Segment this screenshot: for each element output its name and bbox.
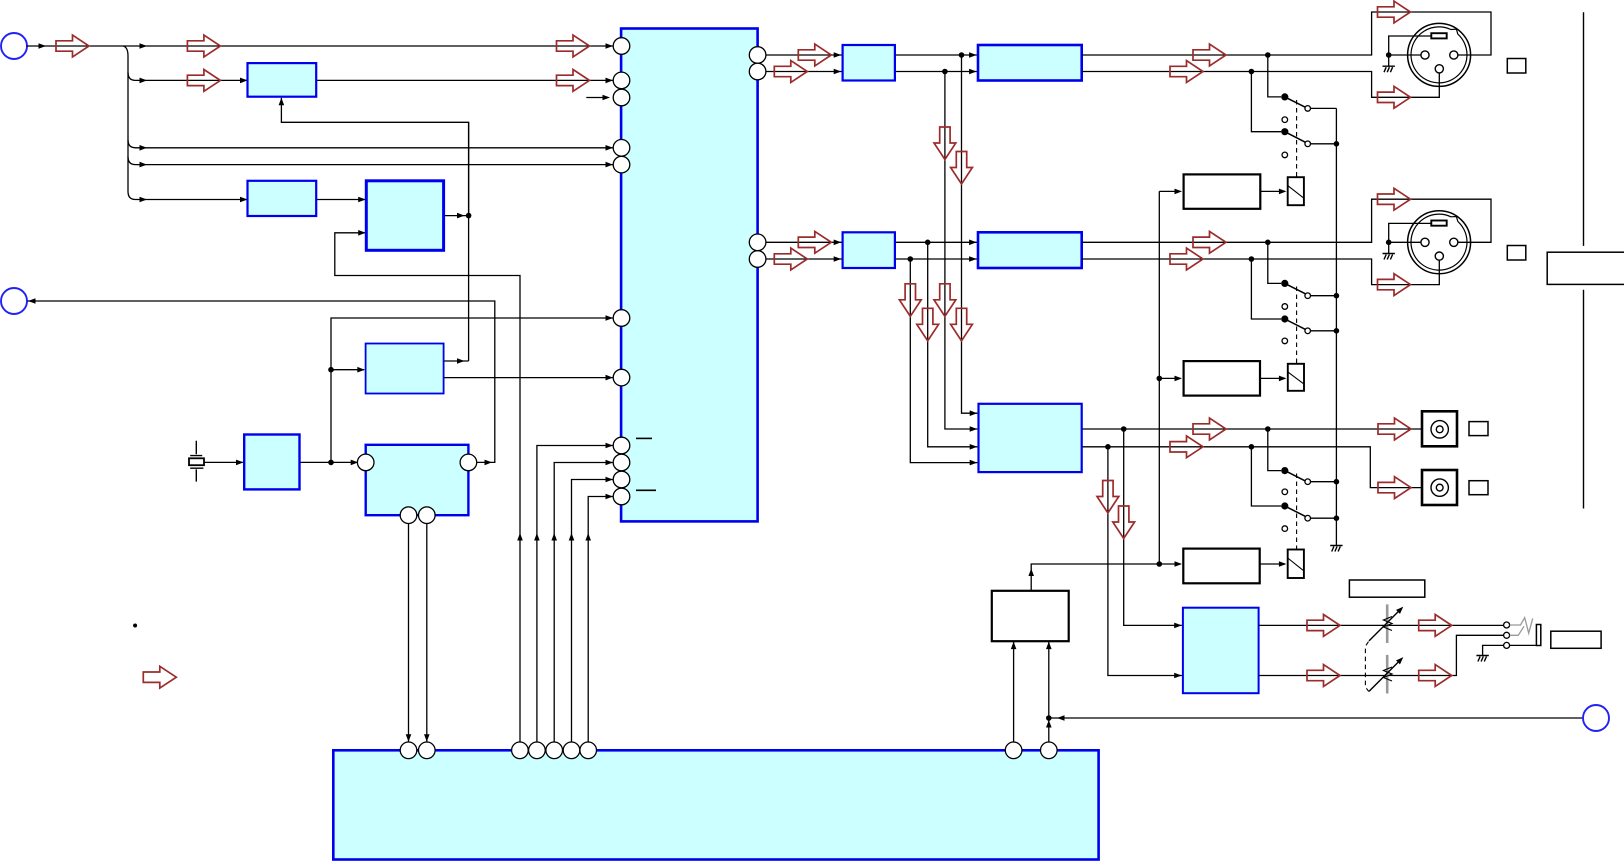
block B4: digital filter <box>366 344 444 394</box>
wire: CPU pin up to DSP pin 445 <box>537 446 613 743</box>
mute switch 1 NC contact A <box>1282 117 1288 123</box>
block: headphone amp <box>1183 608 1259 694</box>
XLR1 pin 3 <box>1450 51 1458 59</box>
XLR2 pin 2 <box>1421 238 1429 246</box>
wire: mute control into driver 3 <box>1159 563 1180 565</box>
junction: mute bus sw2b <box>1334 328 1340 334</box>
wire: mute control into driver 1 <box>1159 190 1180 192</box>
node: remote connector J3 <box>1583 705 1609 731</box>
wire: branch to DSP pin D <box>128 140 613 148</box>
wire: DSP out 1a to DAC filter 1 <box>766 54 842 56</box>
block: relay driver 3 <box>1183 549 1259 584</box>
mute switch 2 pole B arm <box>1285 319 1305 329</box>
wire: xtal-osc output to divider B6 <box>300 461 358 463</box>
label rect: muting <box>1349 580 1424 597</box>
XLR2 pin 1 <box>1435 252 1443 260</box>
junction: mute bus sw3a <box>1334 479 1340 485</box>
wire: mute control into driver 2 <box>1159 377 1180 379</box>
mute switch 3 pole B arm <box>1285 506 1305 516</box>
pin: DSP left I <box>613 454 630 471</box>
pin: CPU top 7 <box>580 742 597 759</box>
mute switch 1 pole B arm <box>1285 132 1305 143</box>
connector XLR1 body <box>1408 23 1471 86</box>
mute switch 3 pole B movable contact <box>1281 502 1288 509</box>
red flow arrows XLR1 <box>1193 44 1226 66</box>
wire: DAC out b down to HP amp input 2 <box>1108 447 1182 676</box>
mute switch 2 pole B throw contact <box>1305 328 1311 334</box>
wire: driver 1 to relay 1 <box>1260 190 1285 192</box>
relay RY3 <box>1288 550 1304 579</box>
block: system control <box>992 591 1069 641</box>
block B5: crystal oscillator <box>244 435 299 490</box>
wire: PLL clock to line amp B1 bottom <box>281 98 468 216</box>
pin: DSP left C <box>613 89 630 106</box>
mute switch 3 NC contact A <box>1282 489 1288 495</box>
label overbar: DSP pin H <box>636 437 652 439</box>
pin: CPU top 9 <box>1041 742 1058 759</box>
arrowheads middle section <box>834 52 842 58</box>
mute switch 3 pole B throw contact <box>1305 515 1311 521</box>
junction: xtal branch to filter <box>328 367 334 373</box>
wire: PLL feedback from divider net <box>335 233 520 742</box>
pin: DSP right out 1a <box>749 47 766 64</box>
mute switch 2 pole B movable contact <box>1281 315 1288 322</box>
wire: jack sleeve to ground <box>1483 645 1504 655</box>
wire: driver1 cold to XLR1 pin3 <box>1251 72 1439 98</box>
wire: filter out 2b to line driver 2 <box>895 258 977 260</box>
label square XLR1 <box>1507 59 1526 74</box>
XLR1 pin 2 <box>1421 51 1429 59</box>
wire: switch1 pole B to mute bus <box>1311 143 1337 145</box>
block: line driver 2 <box>978 232 1082 268</box>
red flow arrows, input section <box>56 35 89 57</box>
wire: switch2 pole B to mute bus <box>1311 330 1337 332</box>
junction: XLR1 cold tap <box>1249 69 1255 75</box>
pin: divider right <box>460 454 477 471</box>
connector: headphone jack ring contact <box>1504 632 1510 638</box>
block B1: input line amp <box>248 63 317 97</box>
wire: driver2 cold from block <box>1082 258 1252 260</box>
node: analog input connector J1 <box>1 33 27 59</box>
wire: filter out 1b to line driver 1 <box>895 71 977 73</box>
wire: XLR2 shell node to latch <box>1389 223 1432 242</box>
wire: XLR2 shell node ground stub <box>1388 242 1390 253</box>
junction: XLR2 cold tap <box>1249 256 1255 262</box>
junction: XLR2 hot tap <box>1265 240 1271 246</box>
legend: signal flow arrow <box>143 666 176 688</box>
wire: input fan-out branch trunk <box>124 46 248 200</box>
potentiometer: HP volume L <box>1369 604 1400 643</box>
relay RY1 <box>1288 177 1304 205</box>
wire: divider bottom pin 1 down to CPU block <box>408 519 410 741</box>
ground: mute bus <box>1330 546 1342 552</box>
block: relay driver 1 <box>1184 174 1261 208</box>
pin: divider left <box>357 454 374 471</box>
mute switch 1 pole A movable contact <box>1281 93 1288 100</box>
junction: RCA tap b <box>1249 444 1255 450</box>
wire: divider B6 output to word-sync line <box>28 301 495 462</box>
wire: XLR1 shell node to latch <box>1389 36 1432 55</box>
block: line driver 1 <box>978 45 1082 81</box>
relay RY2 <box>1288 364 1304 391</box>
wire: filter out 1a to line driver 1 <box>895 54 977 56</box>
connector: headphone jack tip contact <box>1504 622 1510 628</box>
pin: CPU top 8 <box>1005 742 1022 759</box>
headphone jack ring spring <box>1510 626 1524 635</box>
wire: CPU pin up to DSP pin 479 <box>572 480 614 743</box>
wire: RCA hot tap to mute switch 3a <box>1268 429 1281 471</box>
junction: mute bus sw3b <box>1334 515 1340 521</box>
wire: PLL output to clock node <box>444 215 469 217</box>
pin: CPU top 1 <box>400 742 417 759</box>
pin: DSP left D <box>613 140 630 157</box>
headphone jack tip spring <box>1510 618 1533 634</box>
mute switch 1 pole A arm <box>1285 97 1305 107</box>
label square RCA2 <box>1469 481 1488 495</box>
red flow arrows XLR2 <box>1193 231 1226 253</box>
pin: DSP right out 2b <box>749 251 766 268</box>
wire: driver1 cold from block <box>1082 71 1252 73</box>
wire: clock vertical net <box>468 122 470 361</box>
wire: XLR1 pin2 to shell node <box>1389 54 1421 56</box>
wire: DSP out 1b to DAC filter 1 <box>766 71 842 73</box>
wire: HP amp out L to jack tip <box>1259 624 1504 626</box>
wire: xtal clock vertical to DSP pin 318 <box>331 318 613 462</box>
mute switch 3 pole A movable contact <box>1281 467 1288 474</box>
wire: monitor tap 1a down to DAC input 1 <box>962 55 978 413</box>
pin: DSP left K <box>613 488 630 505</box>
mute switch 3 pole A throw contact <box>1305 479 1311 485</box>
mute switch 2 pole A throw contact <box>1305 293 1311 299</box>
wire: DAC out a to RCA/HP net <box>1082 428 1421 430</box>
mute switch 2 pole A movable contact <box>1281 280 1288 287</box>
junction: XLR2 shell node <box>1386 240 1392 246</box>
pin: CPU top 5 <box>546 742 563 759</box>
mute switch 1 pole A throw contact <box>1305 106 1311 112</box>
block: DAC digital filter 2 <box>843 232 895 268</box>
XLR1 pin 1 <box>1435 65 1443 73</box>
wire: CPU to system ctrl 1 <box>1013 642 1015 742</box>
label square RCA1 <box>1469 422 1488 436</box>
wire: XLR2 cold tap to mute switch 2b <box>1251 259 1281 319</box>
red flow arrows middle <box>798 44 831 66</box>
wire: driver1 hot to XLR1 loop <box>1082 12 1491 55</box>
pin: divider bottom 2 <box>419 507 436 524</box>
wire: filter B4 output 1 to clock net <box>444 360 469 362</box>
wire: branch to DSP pin E <box>128 157 613 165</box>
wire: branch to line amp B1 <box>128 73 248 81</box>
wire: CPU pin up to DSP pin 462 <box>554 463 613 743</box>
junction: mute bus sw2a <box>1334 293 1340 299</box>
ground: headphone jack <box>1476 656 1488 662</box>
connector XLR2 body <box>1408 211 1471 274</box>
connector: headphone jack sleeve contact <box>1504 642 1510 648</box>
wire: jack sleeve to body bar <box>1510 644 1537 646</box>
wire: switch1 pole A to mute bus <box>1311 107 1337 109</box>
label rect: right edge <box>1547 252 1624 284</box>
dashed link relay2 to switch 2 <box>1296 287 1298 364</box>
ground: XLR2 shell <box>1383 254 1395 260</box>
wire: CPU pin up to DSP pin 496 <box>588 497 613 743</box>
XLR2 pin 3 <box>1450 238 1458 246</box>
pin: DSP left E <box>613 156 630 173</box>
headphone jack body bar <box>1536 625 1540 646</box>
arrowheads on input section wires <box>39 43 47 49</box>
pin: DSP right out 1b <box>749 63 766 80</box>
wire: RCA cold tap to mute switch 3b <box>1251 447 1281 506</box>
legend bullet <box>133 624 137 628</box>
label rect: headphone jack <box>1551 631 1601 648</box>
mute switch 3 NC contact B <box>1282 526 1288 532</box>
wire: monitor tap 2a down to DAC input 3 <box>928 242 978 446</box>
wire: switch3 pole A to mute bus <box>1311 481 1337 483</box>
junction: RCA tap a <box>1265 426 1271 432</box>
dashed link relay3 to switch 3 <box>1296 474 1298 550</box>
block: DAC digital filter 1 <box>843 45 895 81</box>
wire: driver2 cold to XLR2 pin3 <box>1251 259 1439 285</box>
wire: XLR2 pin2 to shell node <box>1389 241 1421 243</box>
crystal X1 <box>189 441 204 482</box>
wire: system ctrl output to mute net <box>1031 564 1159 591</box>
wire: DAC out b across to RCA 2 <box>1082 447 1421 488</box>
connector RCA jack 2 <box>1422 470 1457 505</box>
mute switch 1 pole B throw contact <box>1305 141 1311 147</box>
junction dots middle <box>959 52 965 58</box>
wire: monitor tap 2b down to DAC input 4 <box>910 259 977 463</box>
wire: driver2 hot to XLR2 loop <box>1082 199 1491 242</box>
wire: driver 2 to relay 2 <box>1260 377 1285 379</box>
mute switch 2 NC contact A <box>1282 304 1288 310</box>
wire: switch2 pole A to mute bus <box>1311 295 1337 297</box>
pin: divider bottom 1 <box>400 507 417 524</box>
wire: remote input line <box>1049 717 1584 719</box>
pin: DSP left A <box>613 38 630 55</box>
wire: stub into DSP pin C <box>586 97 607 99</box>
block: monitor DAC <box>979 404 1082 472</box>
wire: monitor tap 1b down to DAC input 2 <box>945 72 978 430</box>
wire: XLR1 shell node ground stub <box>1388 55 1390 66</box>
wire: DSP out 2a to DAC filter 2 <box>766 241 842 243</box>
wire: DAC out a down to HP amp input 1 <box>1124 429 1182 625</box>
dashed link relay1 to switch 1 <box>1296 100 1298 177</box>
pin: CPU top 4 <box>529 742 546 759</box>
junction: PLL clock node <box>466 213 472 219</box>
junction: xtal clock node <box>328 460 334 466</box>
boundary line lower right <box>1583 290 1585 509</box>
dashed gang link between pots <box>1365 642 1368 692</box>
wire: DSP out 2b to DAC filter 2 <box>766 258 842 260</box>
red flow arrows RCA <box>1378 418 1411 440</box>
pin: CPU top 6 <box>563 742 580 759</box>
junction: XLR1 hot tap <box>1265 52 1271 58</box>
junction: XLR1 shell node <box>1386 52 1392 58</box>
XLR1 latch <box>1431 33 1446 38</box>
wire: mute ground bus <box>1335 108 1337 545</box>
wire: branch to filter B4 input <box>331 369 364 371</box>
mute switch 2 pole A arm <box>1285 283 1305 293</box>
block B2: sync detector <box>248 181 317 216</box>
mute switch 2 NC contact B <box>1282 338 1288 344</box>
wire: XLR2 hot tap to mute switch 2a <box>1268 242 1281 283</box>
block B6: clock divider <box>366 445 469 515</box>
XLR2 latch <box>1431 221 1446 226</box>
pin: DSP right out 2a <box>749 234 766 251</box>
wire: block B2 output to PLL <box>316 199 365 201</box>
red flow arrows headphone <box>1307 615 1340 637</box>
pin: DSP left F <box>613 310 630 327</box>
block: relay driver 2 <box>1184 361 1260 396</box>
wire: HP amp out R to jack ring <box>1259 635 1504 675</box>
wire: mute control vertical <box>1158 191 1160 564</box>
wire: filter B4 output 2 to DSP pin 377 <box>444 377 614 379</box>
label overbar: DSP pin K <box>636 489 656 491</box>
mute switch 1 NC contact B <box>1282 152 1288 158</box>
block U1: main DSP <box>621 29 758 522</box>
node: word sync out connector J2 <box>1 288 27 314</box>
pin: DSP left G <box>613 369 630 386</box>
wire: driver 3 to relay 3 <box>1260 563 1285 565</box>
ground: XLR1 shell <box>1383 66 1395 72</box>
boundary line upper right <box>1583 12 1585 246</box>
junction: mute bus sw1b <box>1334 141 1340 147</box>
wire: filter out 2a to line driver 2 <box>895 241 977 243</box>
wire: CPU to system ctrl 2 / remote node <box>1048 642 1050 742</box>
pin: DSP left B <box>613 72 630 89</box>
pin: CPU top 2 <box>419 742 436 759</box>
potentiometer: HP volume R <box>1369 655 1400 694</box>
connector RCA jack 1 <box>1422 411 1457 446</box>
wire: XLR1 cold tap to mute switch 1b <box>1251 72 1281 132</box>
pin: DSP left H <box>613 437 630 454</box>
wire: crystal to xtal-osc B5 <box>204 461 243 463</box>
wire: line amp B1 output to DSP pin B <box>316 79 613 81</box>
wire: divider bottom pin 2 down to CPU block <box>426 519 428 741</box>
label square XLR2 <box>1507 246 1526 261</box>
wire: switch3 pole B to mute bus <box>1311 517 1337 519</box>
block B3: PLL <box>366 181 443 251</box>
block: CPU / system controller <box>333 750 1098 859</box>
mute switch 1 pole B movable contact <box>1281 128 1288 135</box>
wire: XLR1 hot tap to mute switch 1a <box>1268 55 1281 97</box>
pin: DSP left J <box>613 471 630 488</box>
pin: CPU top 3 <box>512 742 529 759</box>
mute switch 3 pole A arm <box>1285 471 1305 481</box>
wire: input line to DSP pin A <box>27 45 614 47</box>
